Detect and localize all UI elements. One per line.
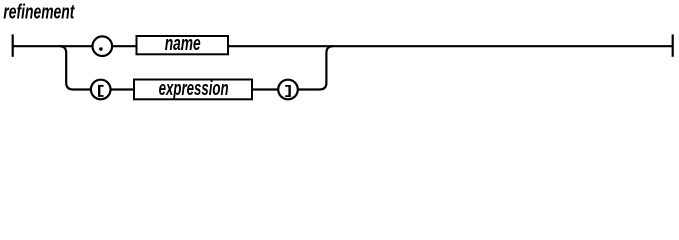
terminal circle (dot) (93, 36, 113, 56)
end terminal bar (672, 34, 674, 56)
wire: expression box to ] circle (253, 88, 278, 90)
bracket glyph ] (285, 85, 291, 97)
wire: [ circle to expression box (111, 88, 135, 90)
start terminal bar (12, 34, 14, 56)
dot glyph . (99, 47, 103, 51)
nonterminal box: name (137, 36, 229, 54)
wire: start to dot circle (13, 45, 92, 47)
wire: merge curve up to main line (298, 46, 333, 89)
bracket glyph [ (98, 85, 104, 97)
nonterminal box: expression (134, 80, 252, 100)
svg-text:refinement: refinement (3, 2, 75, 24)
terminal circle ( [ ) (91, 80, 111, 100)
svg-text:name: name (165, 33, 201, 55)
terminal circle ( ] ) (278, 80, 298, 100)
wire: name box to end terminal (229, 45, 672, 47)
wire: split curve down to bottom branch (60, 46, 91, 89)
svg-text:expression: expression (159, 78, 229, 100)
wire: dot circle to name box (112, 45, 136, 47)
